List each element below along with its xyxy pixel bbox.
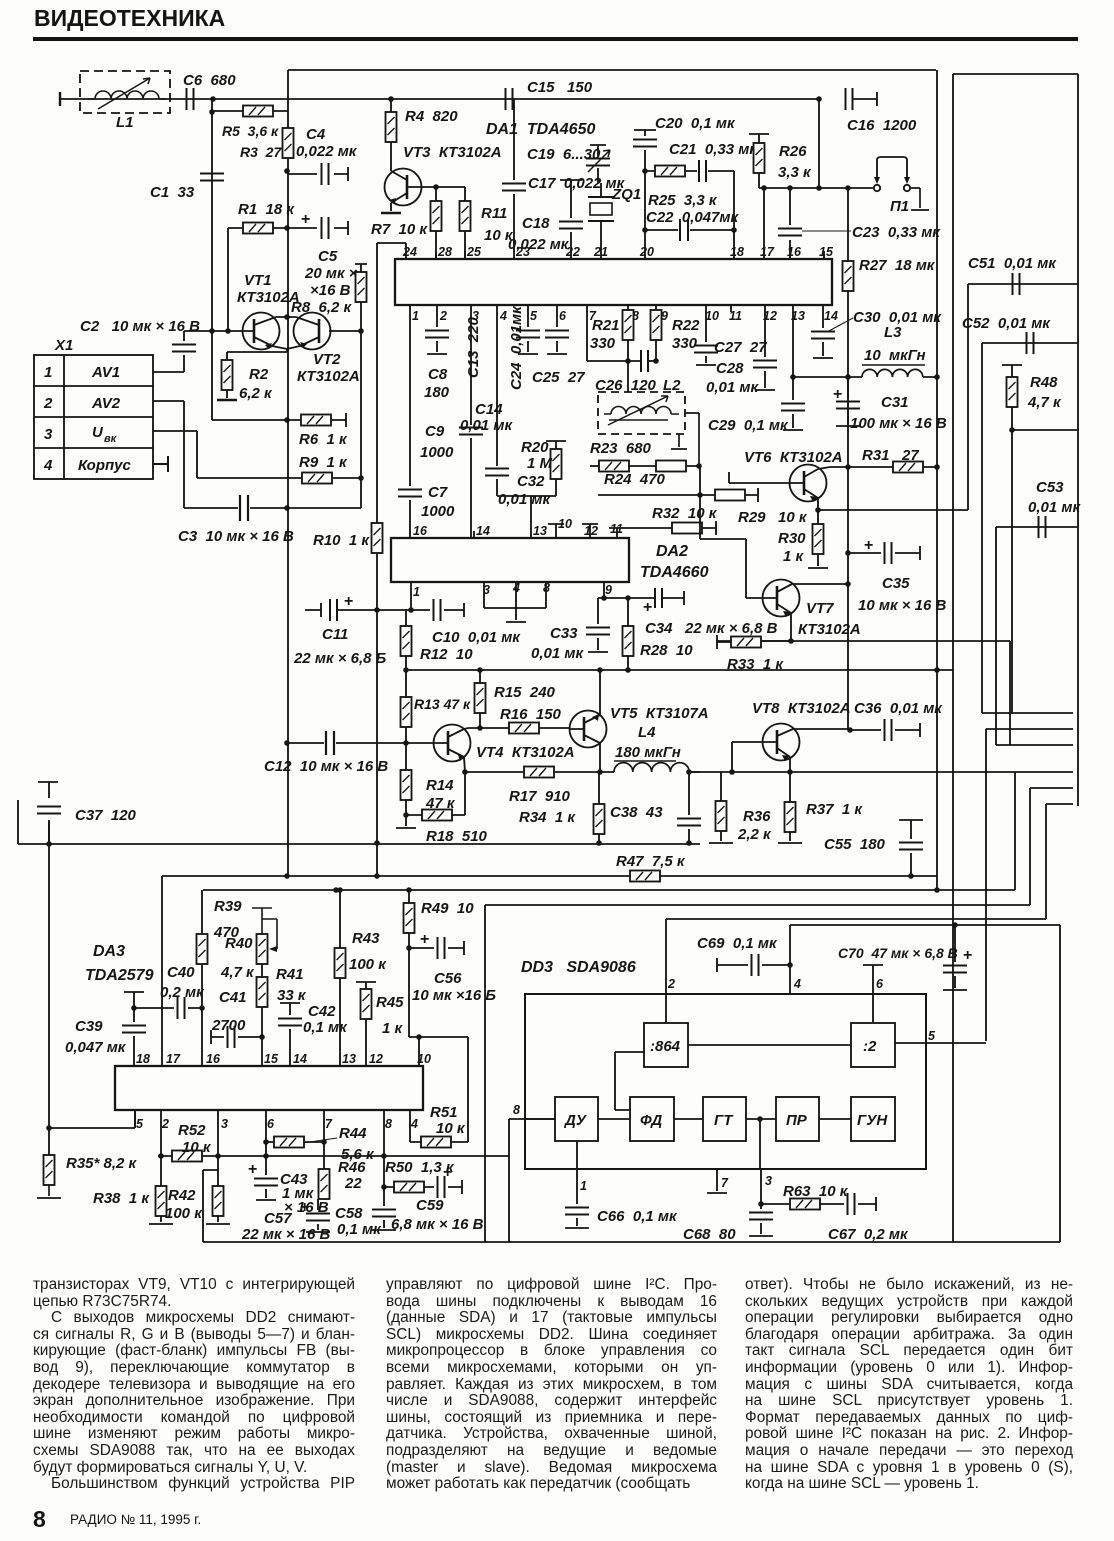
svg-text:С66 0,1 мк: С66 0,1 мк — [597, 1208, 678, 1225]
wire pin7 ground — [707, 1169, 727, 1193]
svg-text::864: :864 — [650, 1038, 681, 1055]
svg-text:С37 120: С37 120 — [75, 807, 137, 824]
pin numbers DA1 bottom — [412, 309, 838, 323]
wire pin2 — [665, 919, 667, 1023]
svg-text:8: 8 — [513, 1103, 520, 1117]
wire y377 rail — [793, 376, 862, 378]
svg-text:+: + — [344, 593, 353, 610]
pin stubs DA1 — [436, 188, 824, 259]
resistor R2 — [217, 360, 273, 402]
svg-text:КТ3102А: КТ3102А — [237, 289, 300, 306]
svg-text:+: + — [833, 386, 842, 403]
svg-text:3: 3 — [44, 426, 53, 443]
svg-text:R1 18 к: R1 18 к — [238, 201, 295, 218]
svg-text:VT3 КТ3102А: VT3 КТ3102А — [403, 144, 502, 161]
wire: y670 line — [406, 669, 953, 671]
svg-text:VT2: VT2 — [313, 351, 341, 368]
svg-text:×16 В: ×16 В — [310, 282, 351, 299]
wire: vt6 emitter line y510 — [818, 509, 968, 511]
wire: right block left edge — [952, 74, 954, 1242]
resistor R7 — [371, 187, 442, 259]
svg-text:R63 10 к: R63 10 к — [783, 1183, 849, 1200]
resistor R46 pin7 — [319, 1110, 367, 1199]
capacitor C39 pin18 — [65, 992, 146, 1066]
svg-text:4: 4 — [410, 1117, 418, 1131]
resistor R15 — [475, 670, 556, 728]
capacitor C2 — [80, 318, 243, 372]
transistor VT5 — [570, 667, 709, 772]
wire pin3 — [749, 1169, 773, 1236]
block GT — [703, 1097, 746, 1141]
capacitor C11 — [293, 593, 411, 667]
svg-text:С31: С31 — [881, 394, 909, 411]
svg-text:14: 14 — [476, 524, 490, 538]
capacitor C70 — [838, 922, 972, 990]
resistor R45 pin12 — [356, 982, 404, 1066]
svg-text:3: 3 — [765, 1174, 772, 1188]
svg-text:DD3 SDA9086: DD3 SDA9086 — [521, 959, 636, 976]
capacitor C30 pin14 — [811, 305, 942, 358]
svg-text:L2: L2 — [663, 377, 681, 394]
svg-text:С16 1200: С16 1200 — [847, 117, 917, 134]
node dots bus — [333, 887, 339, 893]
node junction R4 top — [388, 96, 394, 102]
svg-text:7: 7 — [721, 1176, 729, 1190]
svg-text:R34 1 к: R34 1 к — [519, 809, 576, 826]
svg-text:ТDА2579: ТDА2579 — [85, 967, 154, 984]
capacitor C33 — [531, 598, 610, 662]
svg-text:2: 2 — [161, 1117, 169, 1131]
svg-text:1: 1 — [413, 585, 420, 599]
resistor R5 — [222, 106, 279, 140]
svg-text:5: 5 — [530, 309, 538, 323]
svg-text:С33: С33 — [550, 625, 578, 642]
svg-text:17: 17 — [166, 1052, 181, 1066]
capacitor C27 pin10 — [694, 305, 767, 365]
svg-text:С57: С57 — [264, 1210, 292, 1227]
svg-text:4,7 к: 4,7 к — [1027, 394, 1062, 411]
svg-text:R7 10 к: R7 10 к — [371, 221, 428, 238]
wire pin5 down — [134, 1110, 136, 1128]
svg-text:R15 240: R15 240 — [494, 684, 556, 701]
svg-text:10 мкГн: 10 мкГн — [864, 347, 926, 364]
capacitor C12 — [264, 731, 430, 775]
svg-text:R24 470: R24 470 — [604, 471, 666, 488]
svg-text:R51: R51 — [430, 1104, 458, 1121]
capacitor C1 — [150, 174, 224, 202]
svg-text:R47 7,5 к: R47 7,5 к — [616, 853, 686, 870]
svg-text:КТ3102А: КТ3102А — [297, 368, 360, 385]
capacitor C17 — [502, 99, 626, 259]
wire: bus v986 pin5 — [895, 729, 986, 1043]
svg-text:R10 1 к: R10 1 к — [313, 532, 370, 549]
svg-text:L3: L3 — [884, 324, 902, 341]
resistor R48 — [1002, 365, 1062, 433]
capacitor C35 — [845, 537, 946, 614]
capacitor small between R21 R22 — [625, 350, 659, 372]
capacitor C41 — [211, 989, 262, 1048]
svg-text:R20: R20 — [521, 439, 549, 456]
wire R32 to pin11 — [617, 521, 716, 535]
svg-text:0,1 мк: 0,1 мк — [303, 1019, 348, 1036]
connector X1 — [34, 337, 153, 479]
svg-text:R22: R22 — [672, 317, 700, 334]
svg-text:0,01 мк: 0,01 мк — [706, 379, 759, 396]
wire: bus h788 — [1030, 787, 1073, 789]
wire: vertical x361 — [360, 331, 362, 508]
capacitor C25 pin5 — [516, 305, 540, 354]
wire: bus v1015 — [1014, 772, 1016, 890]
svg-text:5: 5 — [928, 1029, 936, 1043]
capacitor C5 — [288, 211, 358, 299]
svg-text:12: 12 — [369, 1052, 383, 1066]
svg-text:VT5 КТ3107А: VT5 КТ3107А — [610, 705, 709, 722]
wire C14 bracket to pin13 — [497, 496, 556, 538]
inductor L1 — [80, 71, 170, 131]
svg-text:R25 3,3 к: R25 3,3 к — [648, 192, 718, 209]
svg-text:R30: R30 — [778, 530, 806, 547]
svg-text:6: 6 — [559, 309, 567, 323]
resistor R28 — [623, 598, 694, 673]
svg-text:0,01 мк: 0,01 мк — [1028, 499, 1081, 516]
svg-text:R32 10 к: R32 10 к — [652, 505, 718, 522]
svg-text:L1: L1 — [116, 114, 134, 131]
block FD — [630, 1097, 674, 1141]
svg-text:22: 22 — [344, 1175, 362, 1192]
svg-text:5: 5 — [136, 1117, 144, 1131]
svg-text:DA1 ТDА4650: DA1 ТDА4650 — [486, 121, 595, 138]
resistor R22 — [651, 305, 701, 361]
svg-text:13: 13 — [533, 524, 547, 538]
svg-text:С67 0,2 мк: С67 0,2 мк — [828, 1226, 909, 1243]
capacitor C29 — [708, 377, 805, 434]
svg-text:VТ8 КТ3102А: VТ8 КТ3102А — [752, 700, 851, 717]
wire: long vertical x377 pin24 feed — [376, 243, 378, 876]
capacitor C4 — [288, 126, 358, 185]
resistor R11 — [433, 184, 514, 259]
svg-text:R45: R45 — [376, 994, 404, 1011]
op-amp DA2 TDA4660 — [391, 538, 709, 582]
svg-text:R14: R14 — [426, 777, 454, 794]
svg-text:С24 0,01мк: С24 0,01мк — [508, 305, 525, 390]
svg-text:0,022 мк: 0,022 мк — [296, 143, 358, 160]
capacitor C31 — [833, 377, 947, 432]
capacitor C55 — [824, 820, 923, 879]
capacitor C7 — [398, 484, 455, 520]
svg-text:С10 0,01 мк: С10 0,01 мк — [432, 629, 521, 646]
svg-text::2: :2 — [863, 1038, 877, 1055]
op-amp DA1 TDA4650 — [395, 121, 832, 305]
svg-text:ГУН: ГУН — [857, 1112, 888, 1129]
resistor R52 — [172, 1122, 212, 1162]
svg-text:1000: 1000 — [420, 444, 454, 461]
transistor VT4 — [403, 725, 574, 773]
svg-text:С35: С35 — [882, 575, 910, 592]
resistor R29 — [697, 466, 808, 598]
svg-text:С52 0,01 мк: С52 0,01 мк — [962, 315, 1051, 332]
capacitor C57 — [241, 1199, 330, 1243]
wire: signal line y99 — [60, 98, 819, 100]
inductor L2 in dashed box — [595, 361, 699, 466]
svg-text:С42: С42 — [308, 1003, 336, 1020]
wire: c51 line — [968, 283, 1078, 285]
svg-text:С21 0,33 мк: С21 0,33 мк — [669, 141, 758, 158]
transistor VT6 — [744, 449, 851, 513]
svg-text:С69 0,1 мк: С69 0,1 мк — [697, 935, 778, 952]
wire: dd3 box top y905 — [485, 904, 1030, 906]
svg-text:R23 680: R23 680 — [590, 440, 652, 457]
svg-text:16: 16 — [413, 524, 428, 538]
capacitor C8 — [424, 305, 450, 401]
svg-text:R38 1 к: R38 1 к — [93, 1190, 150, 1207]
resistor R10 — [313, 523, 383, 553]
svg-text:+: + — [643, 599, 652, 616]
svg-text:330: 330 — [672, 335, 698, 352]
wire P1 row y188 — [759, 187, 874, 189]
svg-text:С38 43: С38 43 — [610, 804, 663, 821]
wire block row links — [598, 1118, 851, 1120]
resistor R12 — [401, 610, 474, 670]
svg-text:R6 1 к: R6 1 к — [299, 431, 348, 448]
svg-text:14: 14 — [293, 1052, 307, 1066]
node dots y876 y890 — [374, 873, 380, 879]
svg-text:ГТ: ГТ — [714, 1112, 734, 1129]
svg-text:0,1 мк: 0,1 мк — [337, 1221, 382, 1238]
svg-text:С14: С14 — [475, 401, 503, 418]
svg-text:С56: С56 — [434, 970, 462, 987]
resistor R40 trimmer — [220, 908, 277, 981]
wire pin8 into DU — [525, 1118, 555, 1120]
wire :864 to :2 — [688, 1044, 851, 1046]
svg-text:1000: 1000 — [421, 503, 455, 520]
wire: main block right edge — [936, 70, 938, 890]
svg-text:8: 8 — [385, 1117, 392, 1131]
transistor VT2 — [287, 313, 361, 386]
svg-text:10 к: 10 к — [182, 1139, 212, 1156]
svg-text:2,2 к: 2,2 к — [737, 826, 772, 843]
pin number labels DD3 — [513, 977, 936, 1193]
capacitor C28 pin12 — [706, 305, 777, 396]
svg-text:180: 180 — [424, 384, 450, 401]
pin stubs DA2 top — [474, 524, 617, 538]
svg-text:AV2: AV2 — [91, 395, 121, 412]
wire: bottom frame y1242 — [203, 1241, 1060, 1243]
resistor R13 — [401, 670, 472, 743]
resistor R24 — [604, 461, 702, 489]
pin numbers DA2 bottom — [413, 581, 612, 599]
svg-text:22 мк × 6,8 Б: 22 мк × 6,8 Б — [293, 650, 387, 667]
svg-text:R44: R44 — [339, 1125, 367, 1142]
svg-text:С19 6...30: С19 6...30 — [527, 146, 601, 163]
svg-text:С26 120: С26 120 — [595, 377, 657, 394]
svg-text:R8 6,2 к: R8 6,2 к — [291, 299, 353, 316]
ic DD3 SDA9086 outer box — [521, 959, 926, 1169]
svg-text:R31 27: R31 27 — [862, 447, 919, 464]
svg-text:DA2: DA2 — [656, 543, 688, 560]
svg-text:1: 1 — [412, 309, 419, 323]
wire VT6 base feed — [729, 472, 790, 483]
wire: supply line y844 — [18, 800, 700, 844]
svg-text:R28 10: R28 10 — [640, 642, 693, 659]
wire R49 to pin10 via y1037 — [409, 948, 468, 1142]
svg-text:VT1: VT1 — [244, 272, 272, 289]
svg-text:С28: С28 — [716, 360, 744, 377]
svg-text:П1: П1 — [890, 198, 909, 215]
svg-text:10 к: 10 к — [436, 1120, 466, 1137]
wire pin7 down — [587, 305, 640, 361]
svg-text:16: 16 — [206, 1052, 221, 1066]
svg-text:1 к: 1 к — [783, 548, 805, 565]
wire: dd3 left edge — [484, 905, 486, 1242]
svg-text:R39: R39 — [214, 898, 242, 915]
svg-text:ФД: ФД — [640, 1112, 662, 1129]
wire pin6 — [863, 965, 883, 1023]
capacitor C6 — [183, 72, 236, 110]
svg-text:2: 2 — [439, 309, 447, 323]
svg-text:С55 180: С55 180 — [824, 836, 886, 853]
wire: pin2 bus y919 — [666, 918, 1046, 920]
svg-text:+: + — [420, 931, 429, 948]
wire: y641 output line — [716, 640, 1010, 642]
capacitor C3 — [153, 401, 361, 545]
svg-text:R42: R42 — [168, 1187, 196, 1204]
svg-text:18: 18 — [730, 245, 744, 259]
svg-text:С51 0,01 мк: С51 0,01 мк — [968, 255, 1057, 272]
svg-text:0,2 мк: 0,2 мк — [160, 984, 205, 1001]
svg-text:0,01 мк: 0,01 мк — [498, 491, 551, 508]
svg-text:9: 9 — [605, 583, 612, 597]
svg-text:28: 28 — [437, 245, 452, 259]
svg-text:R49 10: R49 10 — [421, 900, 474, 917]
wire: dd3 pin8 drop — [509, 1119, 555, 1242]
svg-text:+: + — [301, 211, 310, 228]
svg-text:R16 150: R16 150 — [500, 706, 562, 723]
svg-text:вк: вк — [104, 433, 118, 445]
capacitor C16 — [816, 88, 917, 134]
svg-text:+: + — [963, 947, 972, 964]
capacitor C36 — [850, 700, 943, 741]
wire: bus h745 — [996, 744, 1073, 746]
svg-text:6,2 к: 6,2 к — [239, 385, 273, 402]
svg-text:+: + — [864, 537, 873, 554]
capacitor C34 — [643, 588, 778, 637]
resistor R14 — [396, 743, 456, 828]
svg-text:100 к: 100 к — [165, 1205, 203, 1222]
svg-text:4: 4 — [499, 309, 507, 323]
resistor R41 — [257, 964, 307, 1066]
resistor R1 — [238, 201, 295, 234]
resistor R39 — [197, 898, 243, 964]
wire :864 to FD — [615, 1052, 644, 1110]
wire pins 3,4,8 bracket — [484, 582, 546, 622]
svg-text:15: 15 — [264, 1052, 279, 1066]
svg-text:С39: С39 — [75, 1018, 103, 1035]
wire: bus v1030 — [1029, 788, 1031, 905]
terminal: X1 pin4 — [153, 456, 168, 472]
svg-text:R18 510: R18 510 — [426, 828, 488, 845]
resistor R32 — [652, 505, 718, 534]
svg-text:С29 0,1 мк: С29 0,1 мк — [708, 417, 789, 434]
crystal ZQ1 — [588, 183, 641, 259]
svg-text:DA3: DA3 — [93, 943, 125, 960]
svg-text:0,047 мк: 0,047 мк — [65, 1039, 127, 1056]
wire pin1 to DA2 pin16 — [409, 305, 411, 538]
svg-text:24: 24 — [402, 245, 417, 259]
capacitor C18 — [508, 180, 583, 259]
wire: lower box top y876 — [162, 875, 937, 877]
svg-text:С23 0,33 мк: С23 0,33 мк — [852, 224, 941, 241]
resistor R44 trimmer — [266, 1125, 375, 1163]
wire: bus v982 — [981, 343, 983, 713]
svg-text:R29 10 к: R29 10 к — [738, 509, 808, 526]
svg-text:С40: С40 — [167, 964, 195, 981]
resistor R26 — [749, 134, 812, 188]
svg-text:17: 17 — [760, 245, 775, 259]
wire: bus v1046 — [1045, 804, 1047, 919]
resistor R25 — [642, 166, 718, 210]
resistor R37 — [778, 772, 863, 843]
svg-text:С1 33: С1 33 — [150, 184, 195, 201]
svg-text:С17 0,022 мк: С17 0,022 мк — [528, 175, 626, 192]
capacitor C56 — [409, 931, 496, 1004]
svg-text:330: 330 — [590, 335, 616, 352]
svg-text:КТ3102А: КТ3102А — [798, 621, 861, 638]
svg-text:L4: L4 — [638, 724, 656, 741]
capacitor C14 pin4 line — [460, 305, 525, 496]
op-amp DA3 TDA2579 — [85, 943, 423, 1110]
svg-text:VТ6 КТ3102А: VТ6 КТ3102А — [744, 449, 843, 466]
block GUN — [851, 1097, 895, 1141]
svg-text:С20 0,1 мк: С20 0,1 мк — [655, 115, 736, 132]
capacitor C32 label — [498, 473, 551, 508]
resistor R33 — [717, 635, 791, 673]
wire pin9 — [598, 582, 655, 598]
svg-text:С3 10 мк × 16 В: С3 10 мк × 16 В — [178, 528, 294, 545]
resistor R47 — [616, 853, 686, 882]
svg-text:13: 13 — [342, 1052, 356, 1066]
wire: bus h713 — [982, 712, 1073, 714]
svg-text:14: 14 — [824, 309, 838, 323]
svg-text:R2: R2 — [249, 366, 269, 383]
wire: emitter bus y771 — [689, 771, 1073, 773]
capacitor C52 — [962, 315, 1051, 354]
svg-text:С32: С32 — [517, 473, 545, 490]
svg-text:ПР: ПР — [786, 1112, 808, 1129]
wire pin4 — [789, 925, 791, 994]
capacitor C26cap pin6 — [532, 305, 585, 386]
svg-text:VТ7: VТ7 — [806, 600, 834, 617]
inductor L4 — [614, 763, 700, 775]
svg-text:С7: С7 — [428, 484, 448, 501]
wire pin8 down — [383, 1110, 385, 1206]
resistor R8 — [291, 264, 367, 331]
svg-text:R21: R21 — [592, 317, 620, 334]
svg-text:ZQ1: ZQ1 — [611, 186, 641, 203]
wire pin5 from :2 — [985, 728, 987, 730]
svg-text:4: 4 — [43, 457, 53, 474]
capacitor C59 — [391, 1164, 484, 1233]
wire: bus h804 — [1046, 803, 1073, 805]
capacitor C66 — [565, 1208, 678, 1226]
svg-text:6: 6 — [267, 1117, 275, 1131]
wire pin2 down to R42 — [160, 1110, 162, 1186]
wire: c52 line — [982, 342, 1078, 344]
svg-text:12: 12 — [584, 524, 598, 538]
block :2 — [851, 1023, 895, 1067]
svg-text:R35* 8,2 к: R35* 8,2 к — [66, 1155, 138, 1172]
svg-text:С12 10 мк × 16 В: С12 10 мк × 16 В — [264, 758, 388, 775]
svg-text:2: 2 — [667, 977, 675, 991]
